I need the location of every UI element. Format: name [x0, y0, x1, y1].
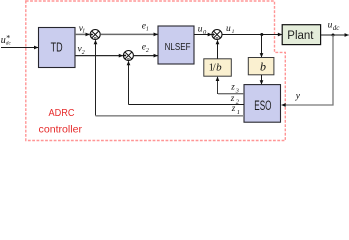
wire z1: ESO to J1 (minus input): [96, 115, 245, 117]
block Plant: [282, 25, 320, 45]
svg-text:NLSEF: NLSEF: [165, 42, 191, 53]
svg-text:z: z: [230, 82, 235, 92]
summing junction J1: [90, 30, 100, 40]
svg-text:2: 2: [146, 48, 149, 54]
svg-text:ESO: ESO: [254, 98, 271, 113]
svg-text:dc: dc: [6, 40, 12, 46]
svg-text:dc: dc: [333, 24, 341, 32]
label e2: [142, 43, 149, 54]
label z3: [230, 82, 239, 95]
svg-text:y: y: [295, 92, 301, 102]
wire e2: J2 to NLSEF: [134, 55, 158, 57]
svg-text:1: 1: [82, 29, 85, 35]
block ESO: [244, 85, 281, 123]
svg-text:z: z: [231, 103, 236, 113]
label u0: [198, 25, 207, 37]
wire v2: TD to junction J2: [75, 55, 123, 57]
summing junction J2: [123, 51, 133, 61]
svg-text:z: z: [230, 93, 235, 103]
svg-text:1: 1: [237, 109, 240, 116]
label e1: [142, 21, 149, 32]
svg-text:controller: controller: [39, 125, 83, 136]
label ADRC controller: [39, 108, 83, 136]
block b: [248, 58, 274, 75]
wire e1: J1 to NLSEF: [101, 33, 158, 35]
label u1: [226, 24, 235, 35]
ADRC controller dashed boundary: [26, 1, 286, 141]
wire b to ESO: [261, 75, 263, 84]
svg-text:b: b: [216, 61, 222, 73]
label v2: [78, 45, 85, 56]
svg-text:2: 2: [82, 50, 85, 56]
wire z3: ESO to 1/b: [218, 93, 244, 95]
block NLSEF: [158, 26, 194, 64]
wire v1: TD to junction J1: [75, 33, 90, 35]
wire u: J3 to Plant: [223, 34, 282, 36]
node on u wire: [260, 33, 263, 36]
block TD: [39, 28, 76, 68]
label u_dc: [328, 20, 341, 32]
feedback wire y: node down and left into ESO: [284, 35, 333, 105]
label u*dc: [1, 34, 12, 47]
wire input u*dc to TD: [1, 47, 38, 49]
wire u0: NLSEF to J3: [194, 34, 212, 36]
svg-text:u: u: [226, 24, 231, 34]
svg-text:3: 3: [235, 88, 239, 95]
svg-text:1: 1: [146, 26, 149, 32]
svg-text:1: 1: [232, 29, 235, 35]
svg-text:u: u: [198, 25, 203, 35]
node on output wire: [332, 34, 335, 37]
summing junction J3: [212, 30, 222, 40]
label z1: [231, 103, 240, 116]
feedback arrow into ESO right: [282, 104, 285, 106]
svg-text:ADRC: ADRC: [49, 108, 75, 119]
svg-text:TD: TD: [51, 41, 63, 55]
wire 1/b to J3 (minus input): [217, 40, 219, 59]
wire Plant output u_dc: [321, 34, 349, 36]
wire node to b: [261, 35, 263, 58]
svg-text:b: b: [260, 59, 266, 73]
wire z2: ESO to J2 (minus input): [129, 104, 245, 106]
label z2: [230, 93, 240, 105]
block 1/b: [204, 59, 232, 76]
label v1: [79, 24, 85, 35]
svg-text:Plant: Plant: [287, 28, 314, 42]
